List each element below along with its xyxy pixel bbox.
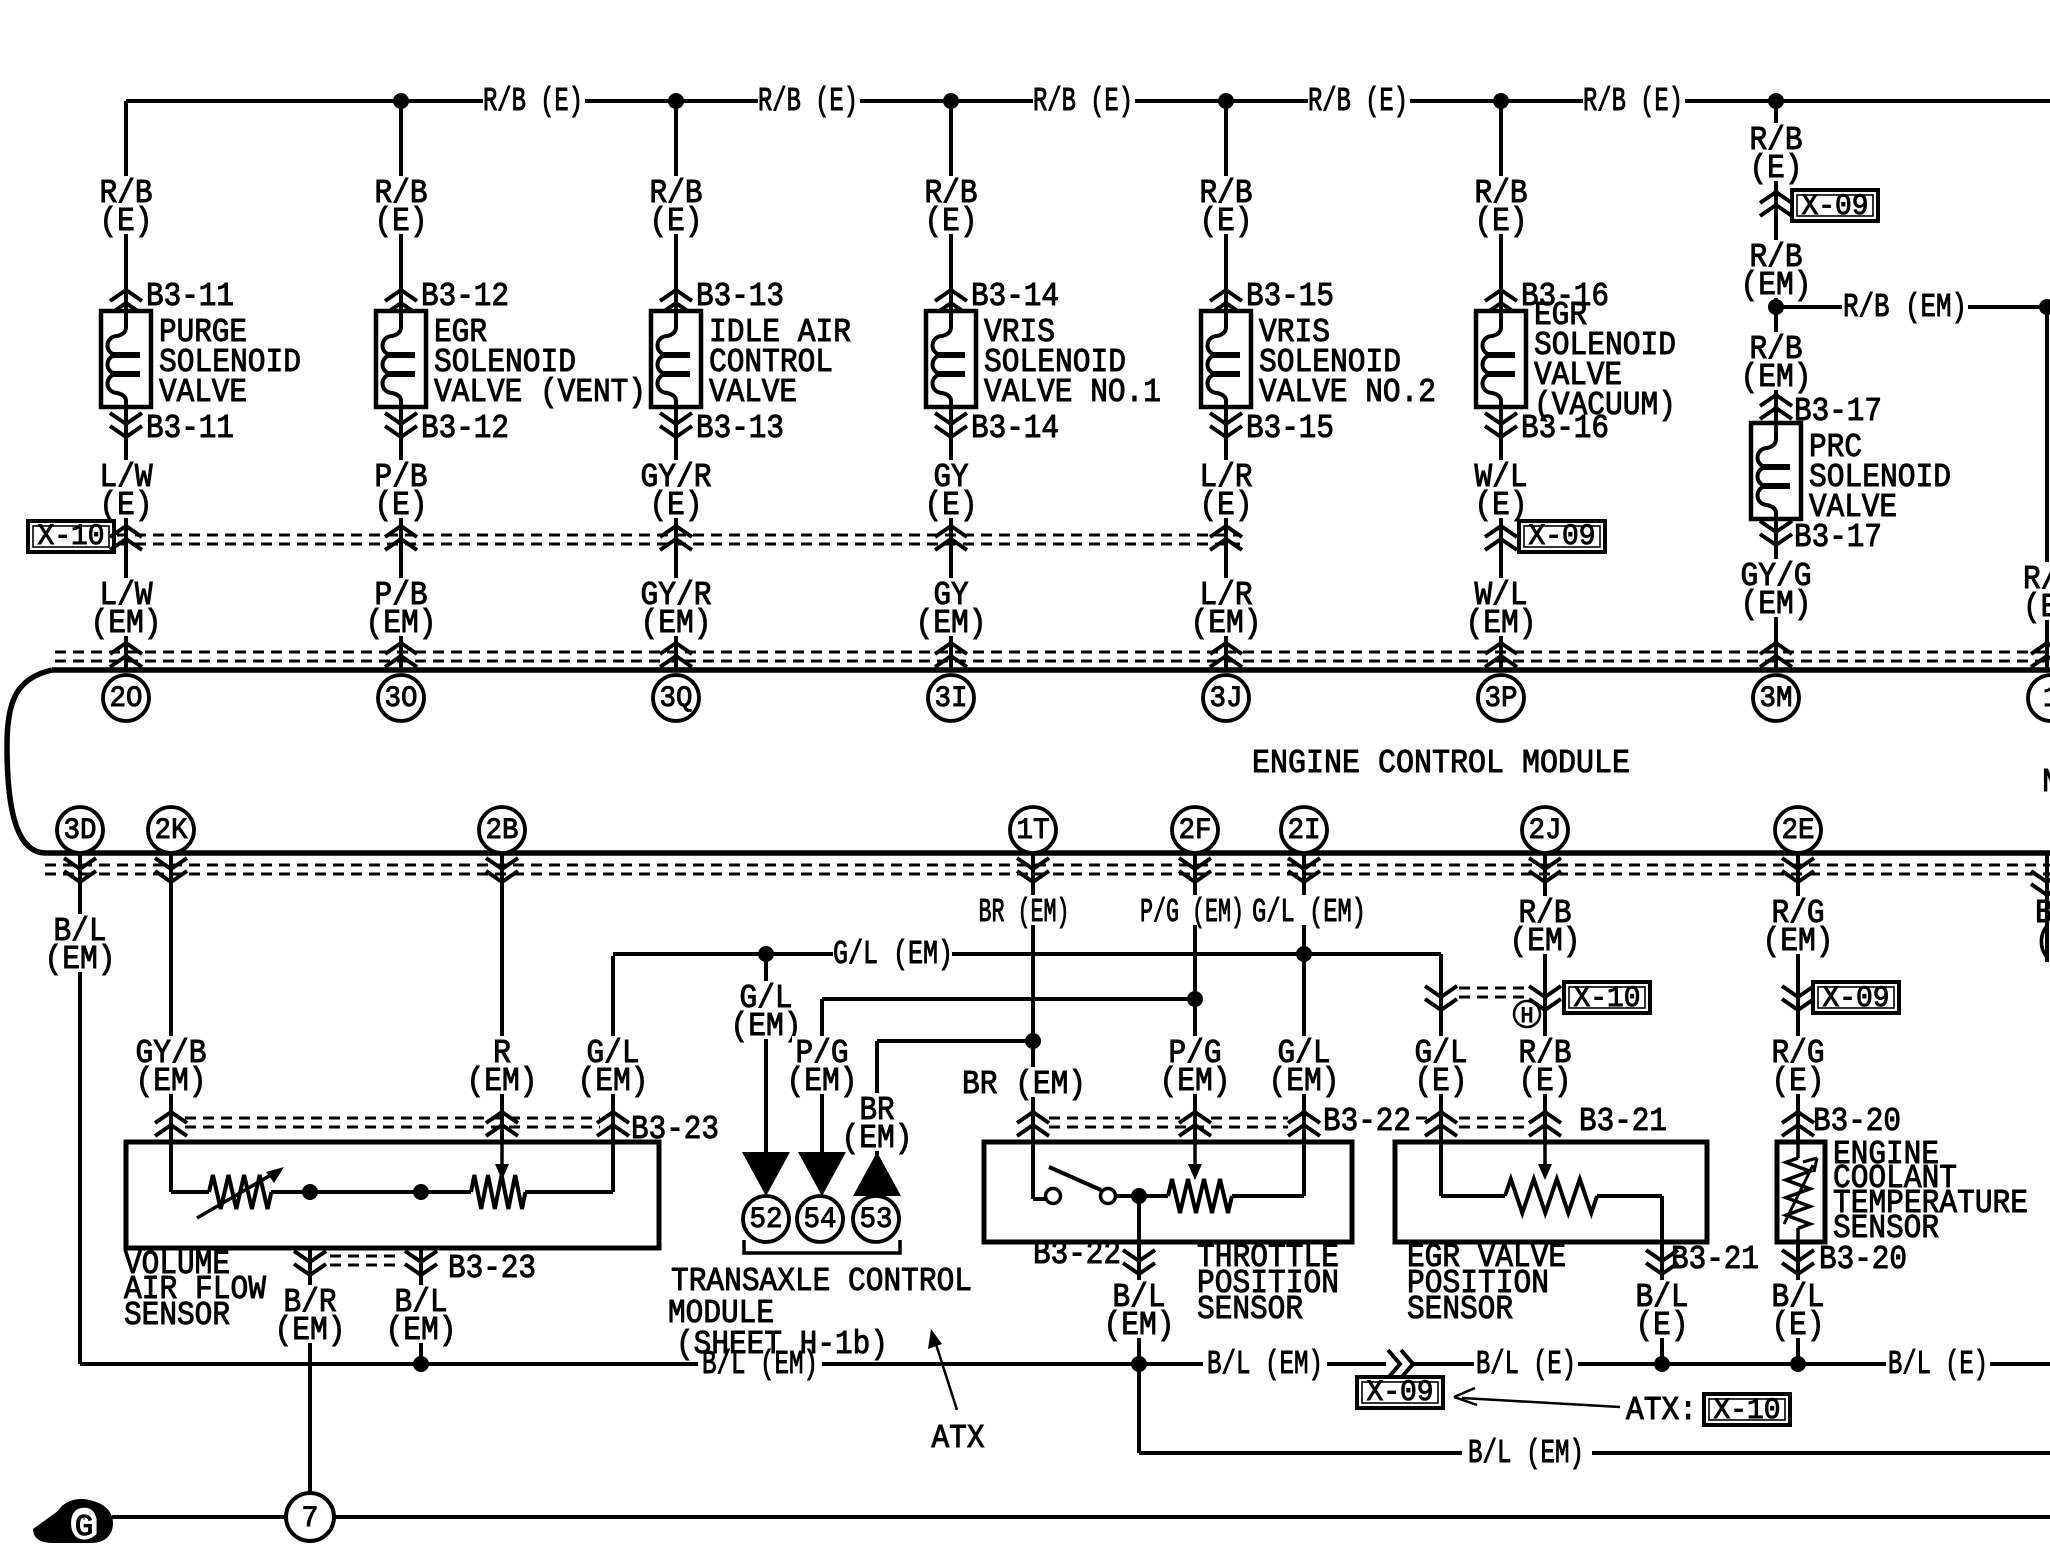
splice H circle [1514,1001,1540,1027]
svg-text:3Q: 3Q [660,682,693,716]
annotation arrow ATX upward [934,1338,957,1410]
ECM bus line (top row) [52,667,2050,673]
svg-text:VALVE NO.2: VALVE NO.2 [1259,374,1436,411]
svg-text:B3-11: B3-11 [146,410,234,447]
wire BR (EM) from TCM pin 53 across to 1T wire [877,1039,1033,1043]
label wire color GY (E) [930,460,971,490]
ground car icon G [33,1499,113,1543]
node rail junction col6 [1493,93,1509,109]
connector X-10/X-09 chevron col4 [935,526,967,550]
connector ECM chevron right edge [2031,643,2050,667]
svg-text:(E): (E) [100,487,153,524]
connector ECM chevron pin 1T [1017,858,1049,882]
svg-text:2F: 2F [1179,814,1212,848]
connector B3-23 dashed segment below VAF [330,1255,400,1258]
svg-text:(E): (E) [925,203,978,240]
connector B3-22 dashed line [1049,1117,1180,1120]
TCM pin circle 52 [743,1196,789,1242]
svg-text:VALVE: VALVE [159,374,247,411]
svg-text:(EM): (EM) [1741,586,1812,623]
svg-text:R/B (E): R/B (E) [758,83,858,120]
svg-text:(E): (E) [1772,1307,1825,1344]
svg-text:(EM): (EM) [842,1120,913,1157]
svg-text:B/L (E): B/L (E) [1476,1346,1576,1383]
svg-text:P/G (EM): P/G (EM) [1140,894,1244,931]
engine coolant temperature sensor box [1777,1142,1825,1242]
svg-text:R/B (E): R/B (E) [483,83,583,120]
label wire color R/B (EM) col7 lower [1746,332,1805,362]
label wire color R (EM) [490,1036,514,1066]
svg-text:G/L (EM): G/L (EM) [833,936,953,973]
connector X-10/X-09 chevron col5 [1210,526,1242,550]
svg-text:B3-14: B3-14 [971,410,1059,447]
connector X-09 chevron (R/G) [1782,986,1814,1010]
svg-text:X-09: X-09 [1529,520,1596,554]
wire right edge R/B (E) [2045,307,2049,670]
svg-text:(EM): (EM) [1741,267,1812,304]
label wire color L/W (E) [96,460,155,490]
wire VAF middle [271,1190,471,1194]
svg-text:(EM): (EM) [467,1063,538,1100]
pin 2F ECM bottom row [1172,807,1218,853]
ground reference circle 7 [286,1493,334,1541]
svg-text:(E): (E) [100,203,153,240]
svg-text:3P: 3P [1485,682,1518,716]
svg-text:(E): (E) [650,203,703,240]
svg-text:1T: 1T [1017,814,1050,848]
connector X-10 chevron (R/B) [1529,986,1561,1010]
connector ECM chevron col6 [1485,643,1517,667]
connector B3-15 upper chevron [1210,290,1242,314]
wire G/L (E) corner down to EGR sensor [1439,954,1443,1142]
connector B3-17 lower chevron [1760,521,1792,545]
label BR (EM) lower [959,1067,1089,1097]
ECM connector dashed line below bus2 [45,864,2050,867]
connector ECM chevron col7 [1760,643,1792,667]
connector B3-21 chevron (G/L) [1425,1112,1457,1136]
pin 3D ECM bottom row [57,807,103,853]
connector B3-23 chevron (GY/B) [155,1112,187,1136]
svg-text:(EM): (EM) [1763,923,1834,960]
connector B3-22 chevron (BR) [1017,1112,1049,1136]
svg-text:B3-23: B3-23 [448,1250,536,1287]
label G/L (EM) two-line [1274,1036,1333,1066]
svg-text:B3-15: B3-15 [1246,410,1334,447]
svg-text:X-10: X-10 [1574,982,1641,1016]
label R/G (EM) two-line [1768,896,1827,926]
node rail junction col5 [1218,93,1234,109]
connector X-09 box (coolant) [1813,982,1899,1013]
svg-text:(EM): (EM) [1269,1063,1340,1100]
svg-text:B/L (E): B/L (E) [1888,1346,1988,1383]
svg-text:VALVE: VALVE [709,374,797,411]
svg-text:(E): (E) [1772,1063,1825,1100]
connector X-10 box (top left) [28,521,114,552]
volume air flow sensor box [126,1142,659,1248]
label wire color GY/R (E) upper [646,176,705,206]
connector ECM chevron pin 2K [155,858,187,882]
TCM bracket [744,1240,900,1253]
label wire color W/L (EM) [1471,578,1530,608]
connector ECM chevron col2 [385,643,417,667]
label wire color B/L (EM) below TPS [1109,1280,1168,1310]
svg-text:X-09: X-09 [1823,982,1890,1016]
svg-text:(EM): (EM) [1510,923,1581,960]
svg-text:B3-12: B3-12 [421,410,509,447]
label wire color R/B (E) col7 [1746,123,1805,153]
wiper arrow P/G onto TPS resistor [1193,1142,1197,1166]
svg-text:B3-22: B3-22 [1033,1236,1121,1273]
wire B/L (E) from coolant sensor down [1796,1242,1800,1364]
connector B3-12 lower chevron [385,413,417,437]
pin 2O ECM [103,675,149,721]
label wire color R/B (E) [1515,1036,1574,1066]
TCM pin circle 54 [797,1196,843,1242]
svg-text:BR (EM): BR (EM) [979,894,1070,931]
svg-text:X-10: X-10 [38,520,105,554]
connector ECM chevron pin 2I [1288,858,1320,882]
connector B3-16 lower chevron [1485,413,1517,437]
label wire color W/L (E) [1471,460,1530,490]
svg-text:2O: 2O [110,682,143,716]
node junction B/L from coolant [1790,1356,1806,1372]
connector X-10/X-09 chevron col6 [1485,526,1517,550]
svg-text:(E): (E) [375,487,428,524]
connector X-10/X-09 chevron col2 [385,526,417,550]
EGR valve position sensor box [1395,1142,1707,1242]
connector B3-20 chevron upper [1782,1112,1814,1136]
connector X-10 box (ATX) [1564,982,1650,1013]
wire B/L (EM) from pin 3D [78,853,82,1364]
svg-text:(E): (E) [1750,150,1803,187]
connector B3-21 chevron (R/B) [1529,1112,1561,1136]
node junction G/L on 2I wire [1296,946,1312,962]
svg-text:2B: 2B [486,814,519,848]
svg-text:R/B (E): R/B (E) [1308,83,1408,120]
node junction B/L from EGR [1654,1356,1670,1372]
wire G/L (EM) from pin 2I [1302,853,1306,1142]
node junction G/L to TCM pin 52 [758,946,774,962]
label wire color P/B (EM) [371,578,430,608]
svg-text:7: 7 [302,1502,319,1536]
wire TPS resistor to G/L [1232,1194,1304,1198]
thermistor zigzag [1796,1142,1800,1158]
label wire color B/L (E) below EGR [1632,1280,1691,1310]
svg-text:ENGINE CONTROL MODULE: ENGINE CONTROL MODULE [1252,745,1630,782]
label wire color B/L (E) below coolant [1768,1280,1827,1310]
wire B3-13 column at x=676 [674,101,678,311]
label BR (EM) upper [976,895,1073,925]
svg-text:B3-13: B3-13 [696,410,784,447]
wire GY/B inside VAF [169,1142,173,1192]
pin 2I ECM bottom row [1281,807,1327,853]
connector X-10 box (ATX note) [1704,1394,1790,1425]
wire TPS switch to resistor [1115,1194,1168,1198]
wire B3-14 column at x=951 [949,101,953,311]
svg-text:H: H [1521,1004,1534,1029]
svg-text:3I: 3I [935,682,968,716]
pin 3P ECM [1478,675,1524,721]
svg-text:X-09: X-09 [1802,190,1869,224]
svg-text:B3-13: B3-13 [696,278,784,315]
svg-text:SENSOR: SENSOR [1197,1291,1303,1328]
svg-text:3M: 3M [1760,682,1793,716]
arrow through VAF variable resistor [197,1172,276,1218]
connector B3-23 chevron below VAF (B/R) [294,1251,326,1275]
connector B3-14 upper chevron [935,290,967,314]
solenoid valve PRC SOLENOID VALVE [1751,423,1801,519]
connector B3-14 lower chevron [935,413,967,437]
connector B3-23 chevron below VAF (B/L) [405,1251,437,1275]
svg-text:R/B (E): R/B (E) [1583,83,1683,120]
svg-text:54: 54 [804,1203,837,1237]
connector B3-21 dashed segment [1459,1117,1527,1120]
label wire color R/G (E) [1768,1036,1827,1066]
svg-text:B3-11: B3-11 [146,278,234,315]
svg-text:(EM): (EM) [1466,605,1537,642]
resistor VAF potentiometer (right) [471,1175,525,1209]
connector X-10/X-09 chevron col1 [110,526,142,550]
label wire color L/R (E) [1196,460,1255,490]
label wire color GY/R (E) [638,460,715,490]
wire B3-12 column at x=401 [399,101,403,311]
svg-text:3D: 3D [64,814,97,848]
connector B3-22 chevron (P/G) [1179,1112,1211,1136]
svg-text:(E): (E) [1519,1063,1572,1100]
svg-text:(E): (E) [375,203,428,240]
label wire color R/B (EM) col7 upper [1746,240,1805,270]
wire column 7 R/B (E) [1774,101,1778,423]
solenoid valve PURGE SOLENOID VALVE [101,311,151,407]
label P/G (EM) single [1137,895,1247,925]
label wire color right edge [2020,562,2050,592]
svg-text:(EM): (EM) [136,1063,207,1100]
connector X-10 dashed line (top) [117,534,1240,537]
svg-text:(EM): (EM) [275,1312,346,1349]
label wire color L/R (EM) [1196,578,1255,608]
svg-text:(EM): (EM) [916,605,987,642]
svg-text:B3-20: B3-20 [1813,1103,1901,1140]
connector B3-22 chevron (G/L) [1288,1112,1320,1136]
ECM outline S-curve joining bus rows [7,670,52,853]
TCM terminal triangle 54 [798,1152,846,1196]
svg-text:B3-22: B3-22 [1323,1103,1411,1140]
node rail junction col4 [943,93,959,109]
label wire color GY/B (EM) [133,1036,210,1066]
svg-text:(EM): (EM) [91,605,162,642]
wire B/L (EM) lower run from TPS drop [1137,1364,1141,1453]
connector B3-17 upper chevron [1760,395,1792,419]
throttle position sensor box [984,1142,1352,1242]
label wire color B/L (EM) pin 3D [50,914,109,944]
label wire color B/R (EM) [280,1285,339,1315]
svg-text:(E): (E) [1475,203,1528,240]
svg-text:2E: 2E [1782,814,1815,848]
wire BR inside TPS to switch [1031,1142,1035,1199]
label wire color GY/R (EM) [638,578,715,608]
node VAF junction B/R [302,1184,318,1200]
wire B/L (E) from EGR sensor down [1660,1242,1664,1364]
connector ECM chevron col4 [935,643,967,667]
svg-text:SENSOR: SENSOR [124,1297,230,1334]
connector B3-23 chevron (G/L) [597,1112,629,1136]
resistor VAF variable (left) [209,1175,271,1209]
wire R/G (EM)/(E) from pin 2E [1796,853,1800,1142]
node junction B/L from TPS [1131,1356,1147,1372]
node rail junction col7 [1768,93,1784,109]
svg-text:3J: 3J [1210,682,1243,716]
label wire color P/B (E) [371,460,430,490]
resistor EGR position [1505,1179,1597,1213]
svg-text:B3-14: B3-14 [971,278,1059,315]
connector chevron B/L (EM)/(E) [1388,1350,1413,1378]
svg-text:VALVE NO.1: VALVE NO.1 [984,374,1161,411]
wire P/G (EM) from pin 2F [1193,853,1197,1142]
label P/G (EM) two-line [1165,1036,1224,1066]
svg-text:B3-12: B3-12 [421,278,509,315]
wire R/B (EM) branch to right edge [1776,305,1842,309]
wire G/L (EM) from VAF sensor up and across [611,956,615,1142]
wire B/L (EM) bottom horizontal net [80,1362,698,1366]
node rail junction col3 [668,93,684,109]
svg-text:SENSOR: SENSOR [1407,1291,1513,1328]
switch contact circles TPS [1046,1189,1061,1204]
svg-text:(EM): (EM) [366,605,437,642]
thermistor arrow [1784,1165,1813,1224]
svg-text:B3-21: B3-21 [1671,1241,1759,1278]
node junction TPS output [1131,1188,1147,1204]
svg-text:G/L (EM): G/L (EM) [1252,894,1366,931]
wire R (EM) from pin 2B [500,853,504,1142]
node VAF junction B/L [413,1184,429,1200]
svg-text:(E): (E) [650,487,703,524]
svg-text:2I: 2I [1288,814,1321,848]
svg-text:G: G [75,1510,94,1545]
svg-text:ATX:: ATX: [1626,1392,1697,1429]
connector B3-11 upper chevron [110,290,142,314]
wire B3-11 column at x=126 [124,101,128,311]
wire R/B (EM)/(E) from pin 2J [1543,853,1547,1142]
label G/L (EM) single [1249,895,1369,925]
svg-text:(EM: (EM [2023,589,2050,626]
solenoid valve EGR SOLENOID VALVE (VACUUM) [1476,311,1526,407]
pin 2E ECM bottom row [1775,807,1821,853]
label wire color GY/G (EM) [1738,559,1815,589]
label wire color L/R (E) upper [1196,176,1255,206]
solenoid valve VRIS SOLENOID VALVE NO.1 [926,311,976,407]
node junction BR on 1T wire [1025,1033,1041,1049]
ECM connector dashed line above bus1 [55,651,2050,654]
ECM bus line (bottom row) [46,850,2050,856]
connector ECM chevron right edge bottom [2031,871,2050,895]
connector ECM chevron pin 2E [1782,858,1814,882]
svg-text:(EM): (EM) [641,605,712,642]
svg-text:(EM): (EM) [1160,1063,1231,1100]
connector B3-16 upper chevron [1485,290,1517,314]
label wire color P/B (E) upper [371,176,430,206]
node junction B/L from VAF [413,1356,429,1372]
node junction col7 to R/B (EM) branch [1768,299,1784,315]
svg-text:(EM): (EM) [578,1063,649,1100]
node rail junction col2 [393,93,409,109]
label wire color GY (EM) [930,578,971,608]
pin 3Q ECM [653,675,699,721]
connector X-10 dashed segment [1459,987,1530,990]
svg-text:(E): (E) [1636,1307,1689,1344]
connector ECM chevron pin 2F [1179,858,1211,882]
node junction right edge [2039,299,2050,315]
connector B3-21 chevron below EGR [1646,1250,1678,1274]
label wire color B/L (EM) below VAF [391,1285,450,1315]
svg-text:53: 53 [860,1203,893,1237]
label wire color L/W (E) upper [96,176,155,206]
svg-text:VALVE (VENT): VALVE (VENT) [434,374,646,411]
svg-text:(E): (E) [1200,203,1253,240]
label wire color W/L (E) upper [1471,176,1530,206]
svg-text:(EM): (EM) [45,941,116,978]
svg-text:BR (EM): BR (EM) [962,1066,1086,1103]
TCM terminal triangle 53 [853,1152,901,1196]
connector B3-15 lower chevron [1210,413,1242,437]
svg-text:B3-21: B3-21 [1579,1103,1667,1140]
connector ECM chevron col5 [1210,643,1242,667]
wire B3-15 column at x=1226 [1224,101,1228,311]
svg-text:B3-17: B3-17 [1794,393,1882,430]
connector B3-12 upper chevron [385,290,417,314]
svg-text:R/B (EM): R/B (EM) [1843,289,1967,326]
node junction P/G on 2F wire [1187,991,1203,1007]
svg-text:B/L (EM): B/L (EM) [1207,1346,1323,1383]
pin 1T ECM bottom row [1010,807,1056,853]
label wire color GY (E) upper [921,176,980,206]
pin 2B ECM bottom row [479,807,525,853]
wiper arrow R/B onto EGR resistor [1543,1142,1547,1166]
label wire color G/L (EM) at VAF [583,1036,642,1066]
ground rail bottom [112,1515,287,1519]
label wire color G/L (E) [1411,1036,1470,1066]
connector ECM chevron pin 3D [64,858,96,882]
pin 3O ECM [378,675,424,721]
pin 2J ECM bottom row [1522,807,1568,853]
connector X-10/X-09 chevron col3 [660,526,692,550]
wire P/G (EM) from TCM pin 54 across to 2F wire [822,997,1195,1001]
label R/B (EM) two-line [1515,896,1574,926]
TCM terminal triangle 52 [742,1152,790,1196]
svg-text:B/L (EM): B/L (EM) [1468,1435,1584,1472]
connector X-09 chevron col7 [1760,192,1792,216]
solenoid valve VRIS SOLENOID VALVE NO.2 [1201,311,1251,407]
pin 2K ECM bottom row [148,807,194,853]
svg-text:B3-17: B3-17 [1794,519,1882,556]
wire R/B (E) top power rail [126,99,483,103]
annotation arrow ATX to X-09 [1462,1398,1620,1407]
TCM pin circle 53 [853,1196,899,1242]
connector B3-23 chevron (R) [486,1112,518,1136]
solenoid valve IDLE AIR CONTROL VALVE [651,311,701,407]
svg-text:1: 1 [2043,682,2050,716]
wire VAF right to G/L [525,1190,613,1194]
svg-text:(E): (E) [925,487,978,524]
connector X-09 box (col6) [1519,521,1605,552]
svg-text:(E): (E) [1475,487,1528,524]
wire EGR resistor to output [1597,1194,1662,1198]
svg-text:2K: 2K [155,814,188,848]
svg-text:2J: 2J [1529,814,1562,848]
wire B/R (EM) from VAF to ground circle 7 [308,1248,312,1494]
connector B3-11 lower chevron [110,413,142,437]
connector B3-23 dashed line above VAF [185,1117,600,1120]
svg-text:(EM): (EM) [386,1312,457,1349]
